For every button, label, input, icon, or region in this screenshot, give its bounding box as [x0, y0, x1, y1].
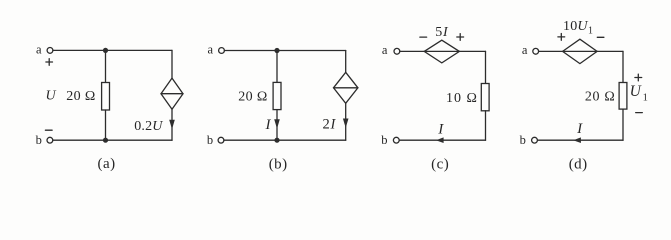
svg-text:a: a	[208, 43, 214, 57]
dependent current source 2I (b)	[334, 72, 358, 103]
wire dependent source bottom (a)	[171, 109, 173, 140]
resistor 20ohm (d)	[619, 83, 627, 110]
svg-text:20 Ω: 20 Ω	[66, 89, 96, 104]
wire resistor bottom (c)	[485, 111, 487, 140]
minus sign of 5I (c)	[420, 36, 427, 38]
dependent voltage source 10U1 (d)	[563, 39, 598, 63]
wire bottom (a)	[53, 139, 172, 141]
svg-text:b: b	[381, 133, 387, 147]
wire a to source (c)	[400, 50, 424, 52]
svg-text:(b): (b)	[269, 156, 288, 172]
wire top (b)	[224, 50, 345, 52]
node a (a) terminal	[47, 48, 53, 54]
junction bottom (a)	[103, 138, 108, 143]
svg-text:10U1: 10U1	[563, 19, 593, 37]
plus sign of U1 (d)	[635, 74, 642, 81]
arrow I (b)	[274, 119, 280, 128]
svg-text:I: I	[576, 121, 583, 137]
wire bottom (b)	[224, 139, 346, 141]
junction top (b)	[274, 48, 279, 53]
wire a to source (d)	[539, 50, 563, 52]
resistor 20ohm (a)	[102, 83, 110, 111]
resistor 10ohm (c)	[481, 84, 489, 111]
svg-text:a: a	[522, 43, 528, 57]
wire source to corner (d)	[597, 50, 623, 52]
node b (d) terminal	[532, 137, 538, 143]
svg-text:5I: 5I	[435, 25, 449, 40]
svg-text:20 Ω: 20 Ω	[238, 89, 268, 104]
wire resistor bottom (d)	[622, 109, 624, 140]
svg-text:(c): (c)	[431, 157, 449, 173]
wire resistor bottom (a)	[105, 110, 107, 140]
arrow 2I direction (b)	[343, 119, 349, 128]
plus sign of 5I (c)	[457, 34, 464, 41]
wire resistor top (a)	[105, 50, 107, 82]
node b (c) terminal	[393, 137, 399, 143]
svg-text:a: a	[382, 43, 388, 57]
minus sign of U1 (d)	[636, 112, 643, 114]
junction bottom (b)	[274, 138, 279, 143]
minus sign of 10U1 (d)	[597, 36, 604, 38]
svg-text:2I: 2I	[323, 116, 337, 132]
wire resistor bottom (b)	[276, 110, 278, 141]
dependent voltage source 5I (c)	[424, 40, 459, 63]
arrow 0.2U direction (a)	[169, 120, 175, 130]
resistor 20ohm (b)	[273, 82, 281, 109]
junction top (a)	[103, 48, 108, 53]
svg-text:20 Ω: 20 Ω	[585, 89, 616, 104]
wire resistor top (d)	[622, 51, 624, 82]
wire resistor top (b)	[276, 51, 278, 83]
wire top (a)	[53, 49, 172, 51]
svg-text:b: b	[207, 133, 213, 147]
svg-text:I: I	[265, 117, 272, 133]
node a (d) terminal	[533, 48, 539, 54]
node a (c) terminal	[394, 48, 400, 54]
svg-text:(d): (d)	[569, 157, 588, 173]
svg-text:b: b	[36, 133, 42, 147]
wire bottom (c)	[400, 139, 486, 141]
node b (b) terminal	[218, 137, 224, 143]
svg-text:a: a	[36, 42, 42, 56]
wire dependent source bottom (b)	[345, 103, 347, 140]
dependent current source 0.2U (a)	[161, 78, 183, 109]
svg-text:U: U	[45, 89, 56, 104]
minus sign of U (a)	[45, 129, 52, 131]
svg-text:(a): (a)	[98, 156, 116, 172]
svg-text:10 Ω: 10 Ω	[446, 91, 478, 106]
wire bottom (d)	[537, 139, 623, 141]
wire dependent source top (b)	[345, 51, 347, 73]
svg-text:0.2U: 0.2U	[134, 119, 163, 134]
wire dependent source top (a)	[171, 50, 173, 78]
plus sign of 10U1 (d)	[558, 34, 565, 41]
arrow I (c)	[436, 137, 444, 143]
wire resistor top (c)	[485, 51, 487, 83]
arrow I (d)	[573, 137, 581, 143]
node b (a) terminal	[47, 137, 53, 143]
svg-text:I: I	[437, 122, 444, 138]
svg-text:b: b	[520, 133, 526, 147]
node a (b) terminal	[219, 48, 225, 54]
wire source to corner (c)	[459, 50, 485, 52]
plus sign of U (a)	[46, 59, 53, 66]
svg-text:U1: U1	[630, 83, 648, 103]
